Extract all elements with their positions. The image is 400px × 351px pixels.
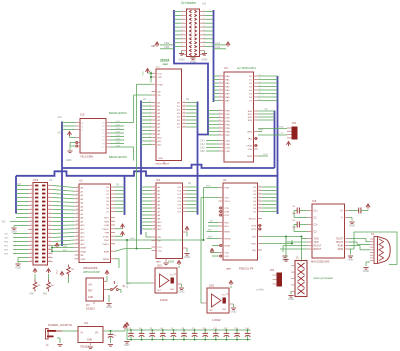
svg-text:CB2: CB2 <box>164 45 170 49</box>
svg-text:D7: D7 <box>177 127 181 129</box>
svg-text:QG1: QG1 <box>157 265 163 268</box>
svg-text:D2: D2 <box>253 194 257 196</box>
svg-text:RS1: RS1 <box>225 226 230 228</box>
svg-text:22: 22 <box>76 235 78 237</box>
svg-text:13: 13 <box>30 208 32 210</box>
svg-text:D3: D3 <box>253 198 257 200</box>
svg-text:D0: D0 <box>186 98 190 101</box>
svg-text:35: 35 <box>30 252 32 254</box>
svg-text:PA5: PA5 <box>226 93 231 96</box>
svg-text:A13: A13 <box>81 235 86 238</box>
svg-text:9: 9 <box>31 200 32 202</box>
svg-text:+5V: +5V <box>88 285 93 287</box>
svg-text:6264: 6264 <box>168 260 175 264</box>
svg-text:5: 5 <box>31 192 32 194</box>
svg-text:R1IN: R1IN <box>338 246 344 248</box>
svg-text:11: 11 <box>30 204 32 206</box>
svg-text:9: 9 <box>150 139 151 141</box>
svg-text:D0: D0 <box>116 184 120 187</box>
svg-text:A4: A4 <box>158 116 161 119</box>
svg-text:A7: A7 <box>81 213 84 216</box>
svg-text:A2: A2 <box>158 109 161 112</box>
svg-text:PHI2: PHI2 <box>104 240 110 242</box>
svg-text:A8: A8 <box>81 217 84 220</box>
svg-text:30: 30 <box>259 85 261 87</box>
svg-text:4: 4 <box>220 82 221 84</box>
svg-text:4: 4 <box>203 14 204 16</box>
svg-text:13: 13 <box>219 120 221 122</box>
svg-text:A1: A1 <box>158 190 161 193</box>
svg-text:IO2: IO2 <box>177 194 181 196</box>
svg-text:4: 4 <box>49 188 50 190</box>
svg-text:U1: U1 <box>223 178 227 182</box>
svg-text:IO7: IO7 <box>177 212 181 214</box>
svg-text:IO5: IO5 <box>177 205 181 207</box>
svg-text:OUT: OUT <box>209 310 214 312</box>
svg-text:21: 21 <box>76 231 78 233</box>
svg-text:PB0: PB0 <box>226 111 231 113</box>
svg-text:A0: A0 <box>158 102 161 105</box>
svg-text:2: 2 <box>154 214 155 216</box>
svg-text:GND: GND <box>363 269 369 273</box>
svg-text:7: 7 <box>31 196 32 198</box>
svg-text:A10: A10 <box>158 221 163 224</box>
svg-text:RESB: RESB <box>225 239 231 241</box>
svg-text:A10: A10 <box>158 137 163 140</box>
svg-text:CB1: CB1 <box>226 148 231 150</box>
svg-text:CS2B: CS2B <box>246 146 252 148</box>
svg-text:1: 1 <box>150 132 151 134</box>
svg-text:D5: D5 <box>253 205 257 207</box>
svg-text:20: 20 <box>259 193 261 195</box>
svg-text:VCC: VCC <box>222 295 226 297</box>
svg-text:GND: GND <box>231 310 237 314</box>
svg-text:17: 17 <box>76 216 78 218</box>
svg-text:15: 15 <box>219 127 221 129</box>
svg-text:micro-jst header: micro-jst header <box>313 276 333 280</box>
svg-text:A0: A0 <box>81 187 84 190</box>
svg-text:GND: GND <box>158 158 163 160</box>
svg-text:22: 22 <box>259 200 261 202</box>
svg-text:R2IN: R2IN <box>338 249 344 251</box>
svg-text:Y1: Y1 <box>102 126 105 128</box>
svg-text:GND: GND <box>202 57 208 61</box>
svg-text:GND27/GNDP: GND27/GNDP <box>155 164 170 166</box>
svg-text:PB2: PB2 <box>226 118 231 120</box>
svg-text:10: 10 <box>149 136 151 138</box>
svg-text:PA1: PA1 <box>226 79 231 82</box>
svg-text:A15: A15 <box>58 132 63 135</box>
svg-text:CB2: CB2 <box>226 151 231 153</box>
svg-text:1: 1 <box>154 217 155 219</box>
svg-text:P65C51 P4: P65C51 P4 <box>239 267 254 271</box>
svg-text:11: 11 <box>219 113 221 115</box>
svg-text:18: 18 <box>259 186 261 188</box>
svg-text:IRQ: IRQ <box>252 250 256 252</box>
svg-text:23: 23 <box>76 239 78 241</box>
svg-text:VPP: VPP <box>158 77 163 79</box>
svg-text:SOB: SOB <box>104 225 109 227</box>
svg-text:PB4: PB4 <box>226 125 231 127</box>
svg-text:D6: D6 <box>177 124 181 126</box>
svg-text:2: 2 <box>150 129 151 131</box>
svg-text:A9: A9 <box>81 220 84 223</box>
svg-text:PHI2: PHI2 <box>130 238 136 240</box>
svg-text:RS3: RS3 <box>248 120 253 122</box>
svg-text:8: 8 <box>154 228 155 230</box>
svg-text:A11: A11 <box>158 225 163 228</box>
svg-text:6: 6 <box>220 89 221 91</box>
svg-text:PB3: PB3 <box>4 254 9 256</box>
svg-text:1uF: 1uF <box>292 227 296 229</box>
svg-text:PB5: PB5 <box>226 128 231 130</box>
svg-text:12: 12 <box>183 105 185 107</box>
svg-text:D5: D5 <box>177 120 181 122</box>
svg-text:RS1: RS1 <box>248 114 253 116</box>
svg-text:Y7: Y7 <box>102 147 105 149</box>
svg-text:OE: OE <box>158 92 162 94</box>
svg-text:6: 6 <box>150 115 151 117</box>
svg-text:29: 29 <box>259 89 261 91</box>
svg-text:BE: BE <box>81 255 84 257</box>
svg-text:PHI2: PHI2 <box>206 186 212 188</box>
svg-text:33: 33 <box>30 248 32 250</box>
svg-text:GND: GND <box>87 340 92 342</box>
svg-text:IC3: IC3 <box>156 66 160 69</box>
svg-text:NMI: NMI <box>30 294 35 296</box>
svg-text:A8: A8 <box>158 130 161 133</box>
svg-text:4: 4 <box>150 122 151 124</box>
svg-text:20: 20 <box>76 227 78 229</box>
svg-text:A8: A8 <box>158 214 161 217</box>
svg-text:D7: D7 <box>253 212 257 214</box>
svg-text:A9: A9 <box>158 133 161 136</box>
svg-text:27: 27 <box>259 96 261 98</box>
svg-text:18: 18 <box>49 216 51 218</box>
svg-text:QG2: QG2 <box>209 285 215 288</box>
svg-text:8: 8 <box>154 193 155 195</box>
svg-text:IO1: IO1 <box>177 191 181 193</box>
svg-text:VI: VI <box>81 333 84 335</box>
svg-text:VCC: VCC <box>170 275 174 277</box>
svg-text:D3: D3 <box>249 87 253 89</box>
svg-text:V+: V+ <box>340 211 344 213</box>
svg-text:17: 17 <box>219 134 221 136</box>
svg-text:C1+: C1+ <box>314 211 319 213</box>
svg-text:CE: CE <box>158 95 162 97</box>
svg-text:IRQ: IRQ <box>43 294 47 296</box>
svg-text:CS1: CS1 <box>158 247 163 249</box>
svg-text:GND: GND <box>11 230 17 234</box>
svg-text:SV1: SV1 <box>33 178 39 182</box>
svg-text:9: 9 <box>220 99 221 101</box>
svg-text:8: 8 <box>150 108 151 110</box>
svg-text:7: 7 <box>220 92 221 94</box>
svg-text:D3: D3 <box>177 113 181 115</box>
svg-text:C10: C10 <box>203 328 206 330</box>
svg-text:XTLI: XTLI <box>225 198 230 200</box>
svg-text:18: 18 <box>183 126 185 128</box>
svg-text:15: 15 <box>30 212 32 214</box>
svg-text:W65C02SIXP: W65C02SIXP <box>83 270 100 274</box>
svg-text:10: 10 <box>203 26 205 28</box>
svg-text:D0: D0 <box>249 76 253 78</box>
svg-text:B: B <box>82 127 84 129</box>
svg-text:2: 2 <box>49 184 50 186</box>
svg-text:POWER_JACKPTH: POWER_JACKPTH <box>48 323 72 327</box>
svg-text:20: 20 <box>49 220 51 222</box>
svg-text:GND: GND <box>15 266 21 270</box>
svg-text:GND: GND <box>88 297 93 299</box>
svg-text:40: 40 <box>49 260 51 262</box>
svg-text:D4: D4 <box>249 90 253 92</box>
svg-text:C7: C7 <box>171 328 173 330</box>
svg-text:9: 9 <box>154 189 155 191</box>
svg-text:36: 36 <box>49 252 51 254</box>
svg-text:A6: A6 <box>158 207 161 210</box>
svg-text:14: 14 <box>219 123 221 125</box>
svg-text:13: 13 <box>76 201 78 203</box>
svg-text:PHI2: PHI2 <box>81 259 87 261</box>
svg-text:RS0: RS0 <box>248 111 253 113</box>
svg-text:38: 38 <box>49 256 51 258</box>
svg-text:8: 8 <box>203 22 204 24</box>
svg-text:A: A <box>82 122 84 125</box>
svg-text:A3: A3 <box>81 198 84 201</box>
svg-text:RXA: RXA <box>279 126 284 129</box>
svg-text:C8: C8 <box>182 328 184 330</box>
svg-text:GND: GND <box>348 258 354 262</box>
svg-text:16: 16 <box>219 130 221 132</box>
svg-text:DS1813: DS1813 <box>86 308 95 311</box>
svg-text:26: 26 <box>259 99 261 101</box>
svg-text:17: 17 <box>30 216 32 218</box>
svg-text:RS2: RS2 <box>248 117 253 119</box>
svg-text:X1: X1 <box>371 232 375 236</box>
svg-text:7: 7 <box>150 111 151 113</box>
svg-text:A15: A15 <box>81 243 86 246</box>
svg-text:$0000-$3FFF: $0000-$3FFF <box>109 111 127 115</box>
svg-text:16: 16 <box>183 119 185 121</box>
svg-text:R1OUT: R1OUT <box>314 246 322 248</box>
svg-text:PA7: PA7 <box>226 100 231 103</box>
svg-text:1MHZ: 1MHZ <box>160 298 168 302</box>
svg-text:32: 32 <box>259 78 261 80</box>
svg-text:GND: GND <box>184 255 190 259</box>
svg-text:A14: A14 <box>81 239 86 242</box>
svg-text:A7: A7 <box>158 126 161 129</box>
svg-text:12: 12 <box>219 116 221 118</box>
svg-text:A1: A1 <box>158 105 161 108</box>
svg-text:29: 29 <box>30 240 32 242</box>
svg-text:16: 16 <box>76 212 78 214</box>
svg-text:CA2: CA2 <box>215 45 221 49</box>
svg-text:DSR: DSR <box>225 212 230 214</box>
svg-text:PHI2: PHI2 <box>127 282 129 288</box>
svg-text:VCC: VCC <box>143 71 145 76</box>
svg-text:C13: C13 <box>235 328 238 330</box>
svg-text:C2-: C2- <box>314 232 318 234</box>
svg-text:15: 15 <box>183 115 185 117</box>
svg-text:IC6: IC6 <box>312 199 317 203</box>
svg-text:A6: A6 <box>81 209 84 212</box>
svg-text:A10: A10 <box>81 224 86 227</box>
svg-text:A5: A5 <box>158 204 161 207</box>
svg-text:31: 31 <box>30 244 32 246</box>
svg-text:RDY: RDY <box>104 218 109 220</box>
svg-text:C1-: C1- <box>314 218 318 220</box>
svg-text:R4: R4 <box>38 285 42 287</box>
svg-text:IO0: IO0 <box>177 187 181 189</box>
svg-text:A11: A11 <box>81 228 86 231</box>
svg-text:C6: C6 <box>160 328 162 330</box>
svg-text:RES: RES <box>208 237 213 239</box>
svg-text:VCC: VCC <box>57 269 59 274</box>
svg-text:CS1: CS1 <box>248 149 253 151</box>
svg-text:A0: A0 <box>210 220 213 223</box>
svg-text:23: 23 <box>259 203 261 205</box>
svg-text:PA2: PA2 <box>226 82 231 85</box>
svg-text:14: 14 <box>203 34 205 36</box>
svg-text:R5: R5 <box>51 285 55 287</box>
svg-text:11: 11 <box>76 194 78 196</box>
svg-text:TXD: TXD <box>252 237 257 239</box>
svg-text:GND: GND <box>179 290 185 294</box>
svg-text:A9: A9 <box>158 218 161 221</box>
svg-text:D2: D2 <box>106 194 110 196</box>
svg-text:D2: D2 <box>177 110 181 112</box>
svg-text:A0: A0 <box>49 178 53 182</box>
svg-text:RXCLK: RXCLK <box>249 219 257 221</box>
svg-text:11: 11 <box>183 101 185 103</box>
svg-text:RWB: RWB <box>104 251 110 253</box>
svg-text:10: 10 <box>49 200 51 202</box>
svg-text:IRQ: IRQ <box>63 250 67 252</box>
svg-text:21: 21 <box>259 196 261 198</box>
svg-text:$8000-$FFFF: $8000-$FFFF <box>109 155 128 159</box>
svg-text:26: 26 <box>49 232 51 234</box>
svg-text:D1: D1 <box>249 80 253 82</box>
svg-text:IC1: IC1 <box>156 178 161 182</box>
svg-text:10: 10 <box>153 186 155 188</box>
svg-text:10: 10 <box>219 109 221 111</box>
svg-text:28: 28 <box>49 236 51 238</box>
svg-text:2: 2 <box>220 75 221 77</box>
svg-text:IRQ: IRQ <box>248 139 252 141</box>
svg-text:D6: D6 <box>106 208 110 210</box>
svg-text:39: 39 <box>30 260 32 262</box>
svg-text:D4: D4 <box>177 117 181 119</box>
svg-text:PB1: PB1 <box>4 246 9 248</box>
svg-text:SYNC: SYNC <box>103 236 109 238</box>
svg-text:A12: A12 <box>81 232 86 235</box>
svg-text:GND: GND <box>222 309 227 311</box>
svg-text:18: 18 <box>203 41 205 43</box>
svg-text:A5: A5 <box>81 205 84 208</box>
svg-text:14: 14 <box>183 112 185 114</box>
svg-text:9: 9 <box>182 26 183 28</box>
svg-text:ram: ram <box>156 260 161 264</box>
svg-text:C4: C4 <box>139 328 141 330</box>
svg-text:VCC: VCC <box>158 74 163 76</box>
svg-text:PA6: PA6 <box>226 96 231 99</box>
svg-text:3: 3 <box>154 210 155 212</box>
svg-text:T2OUT: T2OUT <box>335 242 343 244</box>
svg-text:3: 3 <box>220 78 221 80</box>
svg-text:14: 14 <box>49 208 51 210</box>
svg-text:4: 4 <box>154 207 155 209</box>
svg-text:uart: uart <box>226 267 231 271</box>
svg-text:RTS: RTS <box>252 229 257 231</box>
svg-text:NMI: NMI <box>63 246 67 248</box>
svg-text:D0: D0 <box>253 187 257 189</box>
svg-text:8: 8 <box>49 196 50 198</box>
svg-text:A3: A3 <box>158 197 161 200</box>
svg-text:CB1: CB1 <box>164 41 170 45</box>
svg-text:30: 30 <box>49 240 51 242</box>
svg-text:12: 12 <box>49 204 51 206</box>
svg-text:6: 6 <box>203 18 204 20</box>
svg-text:D0: D0 <box>188 182 192 185</box>
svg-text:D2: D2 <box>249 83 253 85</box>
svg-text:2x header: 2x header <box>181 1 197 5</box>
svg-text:A2: A2 <box>158 193 161 196</box>
svg-text:RES: RES <box>248 132 253 134</box>
svg-text:DTR: DTR <box>252 226 257 228</box>
svg-text:PB2: PB2 <box>4 250 9 252</box>
svg-text:MAX232ECWE: MAX232ECWE <box>311 260 330 264</box>
svg-text:D4: D4 <box>106 201 110 203</box>
svg-text:C5: C5 <box>292 220 296 222</box>
svg-text:R1: R1 <box>72 269 76 271</box>
svg-text:R2OUT: R2OUT <box>314 249 322 251</box>
svg-text:12: 12 <box>203 30 205 32</box>
svg-text:Y6: Y6 <box>102 144 105 146</box>
svg-text:7: 7 <box>154 196 155 198</box>
svg-text:17: 17 <box>181 41 183 43</box>
svg-text:17: 17 <box>183 122 185 124</box>
svg-text:16: 16 <box>49 212 51 214</box>
svg-text:CB1: CB1 <box>4 234 9 236</box>
svg-text:19: 19 <box>181 45 183 47</box>
svg-text:A0: A0 <box>158 186 161 189</box>
svg-text:D1: D1 <box>253 191 257 193</box>
svg-text:IO4: IO4 <box>177 201 181 203</box>
svg-text:25: 25 <box>259 210 261 212</box>
svg-text:C9: C9 <box>192 328 194 330</box>
svg-text:A7: A7 <box>158 211 161 214</box>
svg-text:A6: A6 <box>158 123 161 126</box>
svg-text:IC5: IC5 <box>80 113 85 117</box>
svg-text:5: 5 <box>150 118 151 120</box>
svg-text:5: 5 <box>154 203 155 205</box>
svg-text:D5: D5 <box>106 205 110 207</box>
svg-text:23: 23 <box>30 228 32 230</box>
svg-text:GND: GND <box>349 224 355 228</box>
svg-text:16: 16 <box>203 37 205 39</box>
svg-text:NC: NC <box>2 221 6 224</box>
svg-text:PB1: PB1 <box>226 114 231 116</box>
svg-text:13: 13 <box>183 108 185 110</box>
svg-text:IO6: IO6 <box>177 208 181 210</box>
svg-text:MLB: MLB <box>105 221 110 223</box>
svg-text:33: 33 <box>259 75 261 77</box>
svg-text:C4: C4 <box>292 206 296 208</box>
svg-text:PB6: PB6 <box>226 132 231 134</box>
svg-text:PHI2: PHI2 <box>263 154 269 156</box>
svg-text:31: 31 <box>259 82 261 84</box>
svg-text:CS1: CS1 <box>225 256 230 258</box>
